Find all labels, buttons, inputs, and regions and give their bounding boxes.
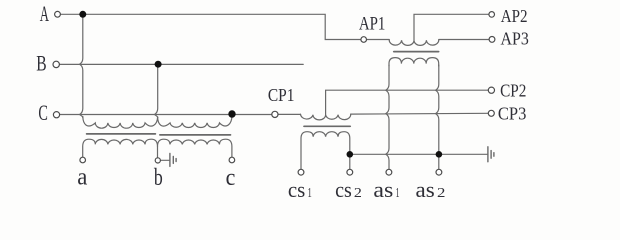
svg-text:cs: cs xyxy=(335,177,352,202)
svg-text:AP1: AP1 xyxy=(359,13,386,34)
svg-text:CP2: CP2 xyxy=(500,80,526,100)
svg-text:cs: cs xyxy=(288,177,305,202)
svg-text:as: as xyxy=(373,177,393,202)
svg-text:AP3: AP3 xyxy=(501,29,529,49)
svg-text:b: b xyxy=(154,165,163,191)
svg-text:as: as xyxy=(416,177,435,202)
svg-text:C: C xyxy=(38,100,48,125)
svg-text:1: 1 xyxy=(396,186,400,201)
svg-text:B: B xyxy=(36,51,46,76)
svg-text:1: 1 xyxy=(308,186,312,201)
svg-text:CP3: CP3 xyxy=(498,103,527,123)
svg-text:a: a xyxy=(77,165,87,191)
svg-text:CP1: CP1 xyxy=(268,85,295,105)
svg-text:A: A xyxy=(40,1,49,26)
svg-text:2: 2 xyxy=(437,186,445,201)
svg-text:AP2: AP2 xyxy=(501,6,528,26)
svg-text:2: 2 xyxy=(354,186,362,201)
svg-text:c: c xyxy=(226,165,236,191)
